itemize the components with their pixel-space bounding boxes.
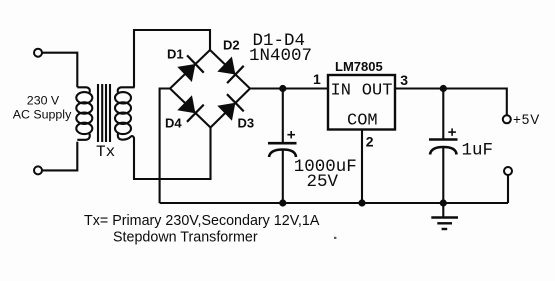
node junction C2 bottom ground — [440, 199, 447, 206]
svg-text:IN: IN — [331, 81, 351, 100]
ground symbol — [431, 203, 458, 229]
wire J2 to transformer primary bottom — [42, 142, 77, 171]
label COM — [347, 112, 378, 131]
label D1-D4 1N4007 — [249, 31, 312, 66]
label D3 — [238, 116, 255, 131]
node junction C2 top — [440, 85, 447, 92]
bridge diamond wires — [170, 50, 250, 128]
label 1000uF 25V — [294, 157, 357, 192]
terminal J4 output return — [504, 167, 512, 175]
stray mark — [334, 237, 336, 239]
svg-text:OUT: OUT — [362, 81, 393, 100]
primary winding — [76, 87, 92, 140]
label Tx note line 1 — [84, 213, 320, 229]
diode D1 — [176, 55, 203, 83]
svg-text:COM: COM — [347, 112, 378, 131]
diode D3 — [216, 94, 243, 122]
svg-text:+5V: +5V — [513, 112, 540, 127]
svg-text:1N4007: 1N4007 — [249, 46, 312, 66]
pin 3 — [400, 72, 408, 88]
svg-text:3: 3 — [400, 72, 408, 88]
wire regulator OUT to +5V terminal — [395, 89, 507, 116]
node junction COM ground — [358, 199, 365, 206]
wire bridge positive node to regulator IN — [250, 87, 328, 89]
plus sign C1 — [287, 131, 295, 138]
terminal J2 bottom AC input — [34, 166, 42, 174]
label OUT — [362, 81, 393, 100]
label +5V — [513, 112, 540, 127]
label IN — [331, 81, 351, 100]
terminal J3 +5V output — [503, 115, 511, 123]
svg-text:D3: D3 — [238, 116, 255, 131]
node junction C1 top — [279, 85, 286, 92]
pin 2 — [366, 134, 374, 150]
label 230 V AC Supply — [13, 93, 72, 121]
svg-text:AC Supply: AC Supply — [13, 108, 72, 122]
secondary winding — [115, 87, 135, 143]
wire secondary top to bridge top node — [134, 30, 210, 88]
pin 1 — [313, 71, 321, 87]
terminal J1 top AC input — [34, 49, 42, 57]
label 1uF — [462, 141, 494, 161]
label D4 — [165, 116, 182, 131]
svg-text:Stepdown Transformer: Stepdown Transformer — [113, 230, 258, 246]
ground rail wire — [160, 202, 508, 204]
svg-text:2: 2 — [366, 134, 374, 150]
svg-text:D4: D4 — [165, 116, 182, 131]
node junction C1 bottom — [279, 199, 286, 206]
capacitor C1 1000uF — [268, 89, 297, 204]
wire regulator COM to ground rail — [361, 130, 363, 204]
diode D2 — [216, 55, 243, 83]
svg-text:25V: 25V — [307, 172, 339, 192]
capacitor C2 1uF — [429, 89, 458, 204]
svg-text:1: 1 — [313, 71, 321, 87]
label LM7805 — [335, 59, 383, 74]
svg-text:Tx: Tx — [96, 143, 115, 161]
label D1 — [167, 47, 184, 62]
label Tx — [96, 143, 115, 161]
label Tx note line 2 — [113, 230, 258, 246]
core — [98, 84, 110, 142]
regulator U1 LM7805 body — [328, 75, 395, 130]
label D2 — [223, 38, 240, 53]
svg-text:Tx= Primary 230V,Secondary 12V: Tx= Primary 230V,Secondary 12V,1A — [84, 213, 320, 229]
plus sign C2 — [448, 128, 456, 135]
wire J1 to transformer primary top — [42, 53, 77, 88]
wire bridge negative node to ground rail — [160, 89, 170, 204]
svg-text:1uF: 1uF — [462, 141, 494, 161]
svg-text:230 V: 230 V — [27, 93, 60, 107]
svg-text:LM7805: LM7805 — [335, 59, 383, 74]
wire J4 to ground rail — [507, 175, 509, 203]
svg-text:D2: D2 — [223, 38, 240, 53]
svg-text:D1: D1 — [167, 47, 184, 62]
diode D4 — [176, 94, 203, 122]
transformer Tx — [76, 84, 134, 143]
wire secondary bottom to bridge bottom node — [134, 128, 211, 180]
